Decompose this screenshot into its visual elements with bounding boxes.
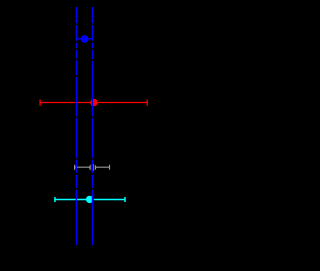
blue error bar row: [76, 38, 92, 40]
black cap band over grey marker (right): [94, 164, 95, 171]
cyan error bar row: [55, 197, 125, 202]
cyan marker: [86, 196, 93, 203]
grey marker: [89, 164, 96, 171]
blue marker: [81, 35, 89, 43]
left reference line: [75, 7, 77, 245]
black cuts across right reference line: [91, 23, 94, 189]
grey error bar row: [75, 165, 110, 170]
black notch over cyan marker: [93, 197, 94, 201]
red marker: [90, 99, 98, 107]
black cuts across left reference line: [75, 23, 78, 189]
right reference line: [91, 7, 93, 245]
black cap band over grey marker (left): [91, 164, 92, 171]
red error bar row: [40, 100, 147, 106]
